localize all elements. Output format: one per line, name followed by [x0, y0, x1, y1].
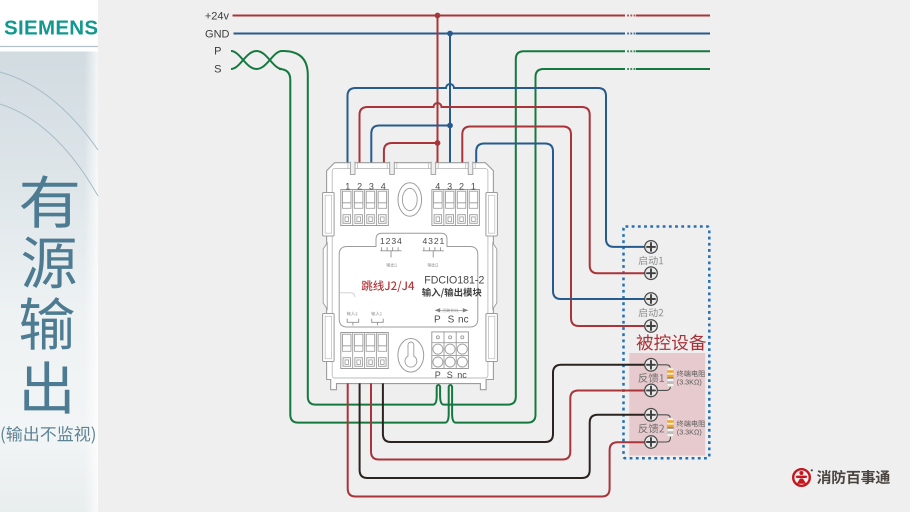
svg-text:+24v: +24v: [205, 10, 230, 22]
svg-text:S: S: [214, 64, 221, 76]
module bottom keyhole: [398, 339, 424, 373]
svg-text:4321: 4321: [423, 236, 446, 246]
wire module right pin2 to 启动2 -: [462, 127, 645, 327]
label 被控设备: [637, 334, 706, 350]
terminal screw 反馈2-: [645, 436, 658, 449]
terminal screw 反馈1-: [645, 384, 658, 397]
sidebar subtitle (输出不监视): [2, 426, 95, 444]
input comb icons: [347, 319, 359, 326]
label 输入1: [371, 312, 382, 316]
svg-text:FDCIO181-2: FDCIO181-2: [424, 275, 484, 287]
svg-text:S: S: [448, 315, 455, 326]
svg-text:1: 1: [471, 182, 476, 192]
sidebar arc decoration: [0, 72, 98, 150]
terminal resistor R2 3.3K body: [667, 418, 673, 437]
module name 跳线J2/J4: [362, 280, 415, 292]
module terminal block bottom-left: [341, 333, 389, 369]
svg-text:2: 2: [357, 182, 362, 192]
wire S loop (twisted pair, module S terminal): [231, 51, 710, 423]
terminal screw 启动2+: [645, 293, 658, 306]
svg-text:2: 2: [459, 182, 464, 192]
svg-text:3: 3: [447, 182, 452, 192]
label 输入2: [347, 312, 358, 316]
sidebar title 有源输出: [21, 175, 77, 227]
label 启动2: [639, 308, 664, 317]
wire P loop (twisted pair, module P terminal): [231, 51, 710, 405]
svg-text:1: 1: [345, 182, 350, 192]
wire +24v branch to module left pin4: [384, 143, 438, 162]
label 反馈1: [638, 373, 664, 383]
label 输出2: [428, 263, 439, 267]
terminal resistor pink zone: [629, 353, 705, 456]
svg-text:nc: nc: [458, 315, 469, 326]
svg-text:P: P: [435, 370, 441, 380]
terminal resistor R1 3.3K body: [667, 368, 673, 387]
svg-text:SIEMENS: SIEMENS: [4, 17, 98, 40]
terminal screw 反馈2+: [645, 409, 658, 422]
sidebar white header band: [0, 0, 98, 52]
消防百事通 logo text: [817, 470, 890, 484]
wire module left pin2 to 启动1 -: [360, 103, 646, 273]
svg-text:P: P: [214, 46, 221, 58]
wire GND branch to module left pin3: [371, 126, 450, 163]
module terminal block top-left: [341, 190, 389, 226]
terminal resistor R2 wire: [657, 415, 670, 442]
wire module bottom pin1 to 反馈2 -: [348, 383, 646, 496]
label 反馈2: [638, 424, 664, 434]
label 输出1: [386, 263, 397, 267]
svg-text:GND: GND: [205, 28, 230, 40]
svg-text:S: S: [447, 370, 453, 380]
terminal screw 启动1+: [645, 241, 658, 254]
module name 输入/输出模块: [422, 288, 481, 298]
svg-text:4: 4: [435, 182, 440, 192]
bus break marks: [627, 15, 629, 17]
svg-text:(3.3KΩ): (3.3KΩ): [677, 378, 702, 387]
controlled device dashed box: [624, 227, 710, 459]
消防百事通 logo icon: [793, 469, 810, 486]
terminal screw 反馈1+: [645, 359, 658, 372]
loop arrows: [435, 309, 468, 311]
wire module bottom pin4 to 反馈1 +: [383, 365, 646, 442]
wire GND bus: [234, 33, 711, 35]
module terminal block top-right: [432, 190, 480, 226]
wire module left pin1 to 启动1 +: [348, 84, 646, 247]
junction +24v/pin4 drop: [435, 13, 441, 19]
junction GND/pin3 drop: [447, 31, 453, 37]
wire GND drop to module pin 3: [449, 34, 451, 163]
label 终端电阻 (3.3K): [677, 370, 705, 377]
module top oval hole: [398, 183, 422, 217]
svg-text:3: 3: [369, 182, 374, 192]
wire module right pin1 to 启动2 +: [476, 144, 645, 300]
terminal screw 启动1-: [645, 267, 658, 280]
module inner outline: [332, 169, 488, 378]
module label area: [339, 233, 478, 327]
svg-text:(3.3KΩ): (3.3KΩ): [677, 428, 702, 437]
svg-text:4: 4: [381, 182, 386, 192]
svg-text:P: P: [434, 315, 441, 326]
module side tabs and bulges: [323, 193, 335, 237]
wire module bottom pin3 to 反馈1 -: [371, 383, 645, 459]
module FDCIO181-2 body: [327, 163, 494, 390]
svg-text:nc: nc: [457, 370, 467, 380]
module P S nc terminal grid: [432, 332, 469, 369]
terminal resistor R1 wire: [657, 365, 670, 391]
label 启动1: [639, 256, 664, 265]
label 终端电阻 (3.3K): [677, 420, 705, 427]
module top mounting slots: [350, 161, 355, 174]
junction +24v branch: [435, 140, 441, 146]
sidebar panel: [0, 0, 98, 512]
wire +24v bus: [233, 15, 711, 17]
junction GND branch: [447, 123, 453, 129]
wire +24v drop to module pin 4: [437, 16, 439, 163]
svg-text:1234: 1234: [380, 236, 403, 246]
terminal screw 启动2-: [645, 320, 658, 333]
wire module bottom pin2 to 反馈2 +: [360, 383, 646, 478]
